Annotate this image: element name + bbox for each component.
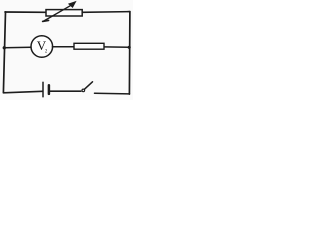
wire right wall [128, 12, 131, 95]
wire bottom right (switch to wall) [95, 92, 130, 95]
voltmeter V2 body [31, 36, 53, 58]
wire middle (voltmeter to resistor) [52, 46, 73, 48]
wire middle left (wall to voltmeter) [4, 46, 31, 49]
rheostat R1 body [46, 10, 82, 16]
resistor R2 body [74, 43, 104, 49]
wire left wall [3, 12, 5, 93]
rheostat R1 slider arrow shaft [44, 5, 71, 21]
wire bottom middle (battery to switch) [50, 90, 81, 92]
wire top left segment [5, 11, 46, 13]
node junction dot left [3, 46, 6, 49]
node junction dot right [128, 46, 131, 49]
switch S1 pivot [82, 89, 85, 92]
rheostat R1 slider arrowhead [69, 1, 76, 7]
wire top right segment [82, 11, 130, 14]
wire middle right (resistor to wall) [104, 46, 129, 48]
switch S1 lever [85, 82, 93, 89]
rheostat R1 slider arrow foot [43, 20, 49, 21]
wire bottom left (wall to battery) [4, 91, 43, 93]
battery B1 negative plate (short thick) [48, 85, 51, 94]
battery B1 positive plate (long) [42, 82, 44, 97]
